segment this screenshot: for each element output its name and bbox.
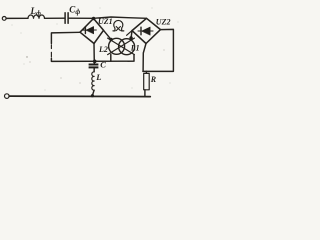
svg-text:L1: L1 [130, 44, 140, 53]
svg-text:R: R [150, 75, 157, 84]
svg-text:UZ2: UZ2 [156, 18, 171, 27]
svg-text:L2: L2 [98, 45, 108, 54]
svg-text:L: L [95, 72, 101, 82]
svg-text:UZ1: UZ1 [98, 17, 113, 26]
svg-text:C: C [100, 60, 106, 70]
